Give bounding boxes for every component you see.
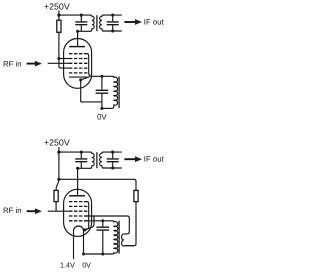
wire secondary bottom rail: [103, 30, 122, 32]
svg-text:RF in: RF in: [3, 60, 22, 69]
capacitor C3 top lead: [101, 76, 103, 89]
wire cathode down lead: [80, 80, 82, 102]
wire anode stem: [77, 31, 79, 46]
inductor L2 (filament coil): [113, 221, 118, 254]
svg-text:0V: 0V: [82, 260, 91, 269]
RF in arrow (2): [27, 210, 35, 212]
wire anode rail: [78, 30, 91, 32]
node C2 top: [111, 14, 114, 17]
wire screen rail to right: [59, 179, 136, 190]
capacitor C3' bottom lead: [102, 231, 104, 254]
svg-text:1.4V: 1.4V: [60, 260, 75, 269]
tube V1 grids: [69, 54, 87, 73]
node G2 junction: [57, 57, 60, 60]
transformer T2 core: [96, 152, 98, 168]
capacitor C1' (primary tuning): [75, 159, 87, 162]
node bypass top (2): [101, 219, 104, 222]
node HT junction: [57, 14, 60, 17]
node C1' top: [80, 151, 83, 154]
svg-text:RF in: RF in: [3, 206, 22, 215]
wire +250V lead: [58, 11, 60, 16]
tube V1 envelope: [64, 39, 92, 89]
wire resistor top lead: [58, 15, 60, 20]
node 0V corner: [82, 253, 85, 256]
wire filament left leg: [73, 231, 75, 259]
transformer T1 secondary winding: [100, 15, 104, 31]
node HT junction (2): [57, 151, 60, 154]
wire 0V rail: [102, 107, 113, 109]
transformer T2 primary winding: [90, 152, 94, 168]
capacitor C1 top lead: [80, 15, 82, 21]
inductor L2 core: [118, 221, 120, 254]
node filament dot: [83, 228, 86, 231]
wire secondary top rail: [103, 14, 122, 16]
node bypass top: [100, 75, 103, 78]
wire secondary bottom rail (2): [103, 167, 122, 169]
wire anode rail (2): [78, 167, 91, 169]
capacitor C1 bottom lead: [80, 25, 82, 31]
capacitor C1' bottom lead: [80, 162, 82, 168]
wire G5 line to bypass: [85, 220, 113, 222]
node C1 top: [80, 14, 83, 17]
wire G2 stub: [59, 58, 69, 60]
node cathode dot: [79, 78, 82, 81]
node anode junction (2): [76, 167, 79, 170]
capacitor C3' (bypass): [97, 227, 110, 230]
tube V2 envelope: [64, 189, 92, 236]
svg-text:+250V: +250V: [44, 1, 70, 11]
node C2 bottom: [111, 29, 114, 32]
RF in arrow: [27, 63, 35, 65]
capacitor C2' top lead: [112, 152, 114, 158]
wire G4 feed line: [85, 216, 130, 234]
svg-text:0V: 0V: [97, 112, 107, 121]
inductor L1 (cathode coil): [113, 76, 118, 108]
svg-text:+250V: +250V: [44, 137, 70, 147]
wire HT down to screen node: [58, 152, 60, 179]
wire RF input to G3 (2): [48, 210, 69, 212]
wire anode stem (2): [77, 168, 79, 196]
node C2' top: [111, 151, 114, 154]
node C2' bottom: [111, 166, 114, 169]
capacitor C2 (secondary tuning): [107, 22, 119, 25]
transformer T2 secondary winding: [100, 152, 104, 168]
capacitor C2' (secondary tuning): [107, 159, 119, 162]
wire +250V lead (2): [58, 147, 60, 152]
inductor L3 (feedback coil): [122, 234, 134, 246]
tube V2 G1-filament tie: [85, 202, 89, 230]
wire secondary top rail (2): [103, 151, 122, 153]
capacitor C1 (primary tuning): [75, 22, 87, 25]
resistor R3 (right dropper): [134, 190, 138, 201]
wire HT rail (2): [59, 151, 91, 153]
capacitor C3' top lead: [102, 221, 104, 227]
wire cathode bypass rail: [91, 75, 113, 77]
resistor R1 (screen dropper): [57, 20, 61, 32]
tube V1 cathode: [69, 76, 87, 78]
wire RF input to G3: [48, 62, 69, 64]
tube V2 anode: [69, 195, 85, 197]
svg-text:IF out: IF out: [144, 18, 165, 27]
capacitor C3 bottom lead: [101, 94, 103, 109]
wire R2 top lead: [56, 179, 59, 190]
IF out arrow: [124, 21, 135, 23]
transformer T1 primary winding: [90, 15, 94, 31]
capacitor C2 top lead: [112, 15, 114, 21]
wire cathode return: [81, 101, 102, 103]
wire HT rail: [59, 14, 91, 16]
svg-text:IF out: IF out: [144, 155, 165, 164]
tube V1 anode: [69, 46, 85, 48]
capacitor C1' top lead: [80, 152, 82, 158]
wire screen rail down: [59, 32, 69, 68]
wire filament right leg: [83, 231, 85, 254]
wire R3 bottom lead to small coil: [124, 202, 136, 246]
resistor R2 (grid feed): [54, 190, 58, 201]
inductor L1 core: [118, 77, 120, 109]
wire R2 bottom lead: [55, 202, 57, 212]
tube V1 G1-cathode tie: [87, 54, 91, 77]
IF out arrow (2): [124, 158, 135, 160]
node 0V junction: [100, 107, 103, 110]
wire cathode diagonal: [81, 77, 90, 80]
wire 0V rail (2): [84, 253, 113, 255]
transformer T1 core: [96, 15, 98, 31]
tube V2 filament: [74, 226, 84, 231]
node anode junction: [76, 30, 79, 33]
capacitor C2 bottom lead: [112, 25, 114, 31]
wire filament external tie: [85, 216, 94, 230]
capacitor C2' bottom lead: [112, 162, 114, 168]
capacitor C3 (cathode bypass): [96, 90, 109, 93]
tube V2 grids: [69, 202, 87, 221]
node screen feed junction: [57, 178, 60, 181]
node 0V junction (2): [101, 252, 104, 255]
